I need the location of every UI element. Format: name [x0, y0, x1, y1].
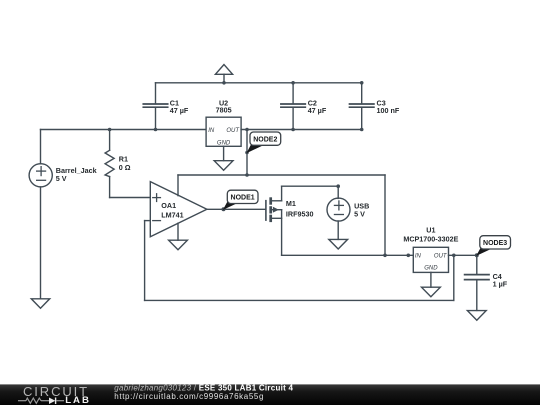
- label C1 value: [170, 98, 189, 115]
- label C2 value: [308, 98, 327, 115]
- svg-text:47 µF: 47 µF: [308, 106, 327, 115]
- label U1 value: [403, 226, 458, 244]
- ground below U1: [422, 287, 441, 297]
- footer bar: [0, 384, 540, 405]
- regulator U1 box: [413, 247, 448, 272]
- wire feedback from minus input: [145, 221, 454, 301]
- capacitor C4: [465, 255, 489, 310]
- transistor M1: [266, 197, 282, 222]
- capacitor C3: [350, 83, 374, 130]
- voltage source USB: [327, 186, 350, 239]
- wire M1 source to USB: [282, 186, 339, 201]
- label C3 value: [377, 98, 400, 115]
- wire op-amp V- to ground: [177, 223, 179, 240]
- svg-text:M1: M1: [286, 199, 296, 208]
- svg-text:5 V: 5 V: [56, 174, 67, 183]
- ground below op-amp: [169, 240, 188, 250]
- ground below USB: [329, 239, 348, 249]
- svg-text:GND: GND: [217, 140, 231, 146]
- wire R1 to op-amp plus input: [110, 197, 151, 199]
- wire op-amp output to M1 gate: [207, 208, 265, 210]
- wire U2 output rail: [241, 129, 362, 131]
- label Barrel_Jack value: [56, 166, 97, 183]
- svg-text:R1: R1: [119, 154, 128, 163]
- resistor R1: [105, 130, 114, 198]
- node flag NODE1: [223, 190, 258, 210]
- label USB value: [354, 202, 369, 219]
- wire M1 drain down to U1 input rail: [282, 210, 414, 256]
- svg-text:GND: GND: [424, 266, 438, 272]
- svg-text:LM741: LM741: [161, 211, 183, 220]
- node flag NODE3: [476, 236, 510, 256]
- svg-text:IRF9530: IRF9530: [286, 209, 314, 218]
- label C4 value: [493, 272, 508, 289]
- svg-text:http://circuitlab.com/c9996a76: http://circuitlab.com/c9996a76ka55g: [114, 392, 264, 401]
- capacitor C1: [143, 83, 167, 130]
- pin labels U2: [208, 128, 240, 147]
- svg-text:IN: IN: [415, 254, 422, 260]
- ground below C4: [467, 311, 486, 321]
- svg-text:1 µF: 1 µF: [493, 280, 508, 289]
- ground below Barrel_Jack: [31, 299, 49, 308]
- wire U2 GND pin: [223, 146, 225, 160]
- wire top rail: [156, 82, 363, 84]
- wire op-amp V+ to rail: [178, 175, 385, 255]
- label R1 value: [119, 154, 131, 172]
- wire U1 GND pin: [430, 272, 432, 287]
- capacitor C2: [281, 83, 305, 130]
- wire U1 output: [449, 254, 477, 256]
- wire main input rail: [41, 129, 207, 131]
- label M1 value: [286, 199, 314, 218]
- power flag VCC arrow: [215, 65, 232, 83]
- svg-text:OUT: OUT: [226, 128, 240, 134]
- svg-text:MCP1700-3302E: MCP1700-3302E: [403, 234, 458, 243]
- ground below U2: [214, 161, 233, 171]
- svg-text:NODE3: NODE3: [483, 240, 507, 247]
- pin labels U1: [415, 254, 448, 272]
- wire NODE2 branch down to V+ rail: [246, 130, 248, 176]
- svg-text:OUT: OUT: [434, 254, 448, 260]
- svg-text:5 V: 5 V: [354, 210, 365, 219]
- svg-text:OA1: OA1: [161, 201, 176, 210]
- svg-text:NODE1: NODE1: [231, 195, 255, 202]
- op-amp OA1: [150, 182, 207, 237]
- svg-text:0 Ω: 0 Ω: [119, 163, 131, 172]
- regulator U2 box: [206, 117, 241, 146]
- svg-text:U1: U1: [426, 226, 435, 235]
- svg-text:47 µF: 47 µF: [170, 106, 189, 115]
- label OA1 value: [161, 201, 183, 220]
- svg-text:7805: 7805: [216, 106, 232, 115]
- label U2 value: [216, 98, 232, 114]
- voltage source Barrel_Jack: [29, 130, 52, 299]
- node flag NODE2: [246, 132, 280, 153]
- svg-text:IN: IN: [208, 128, 215, 134]
- svg-text:LAB: LAB: [65, 395, 91, 405]
- svg-text:NODE2: NODE2: [253, 136, 277, 143]
- svg-text:100 nF: 100 nF: [377, 106, 400, 115]
- logo schematic squiggle: [18, 398, 64, 405]
